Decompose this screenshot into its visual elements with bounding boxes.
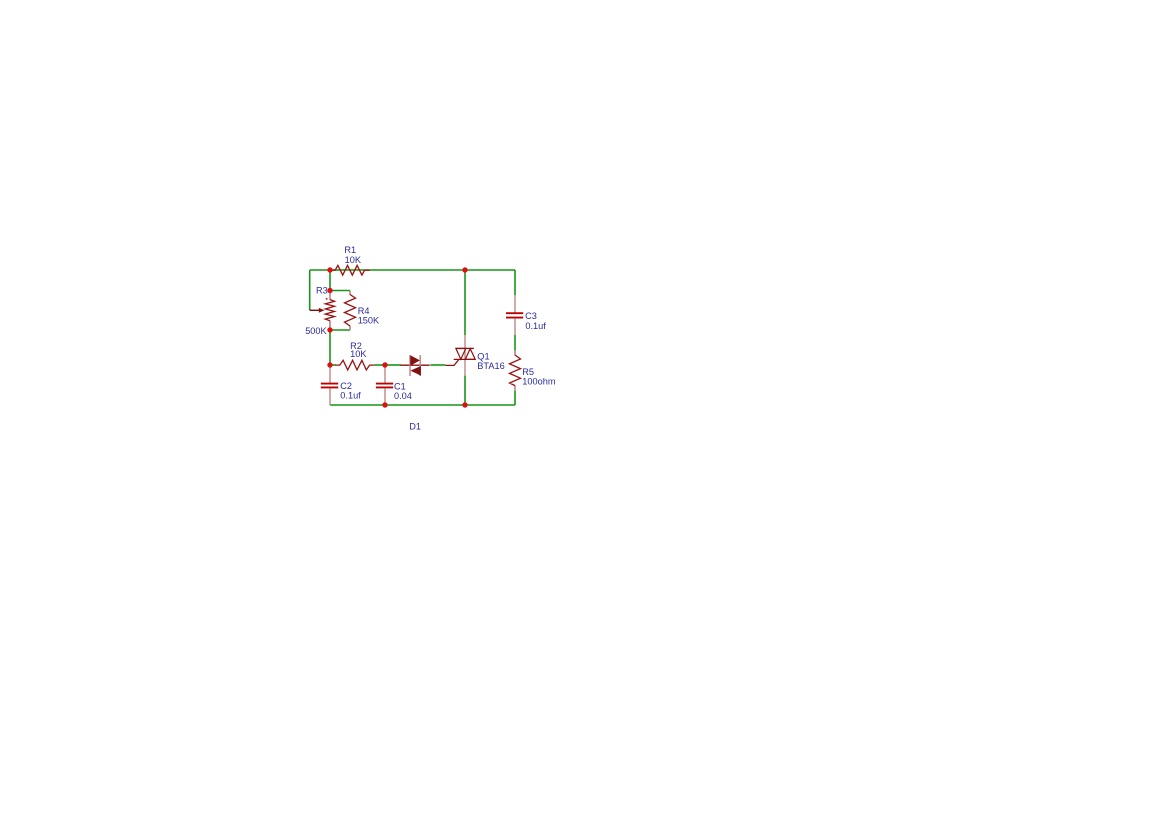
- wire 500K node down to R2 node: [329, 330, 331, 365]
- svg-text:BTA16: BTA16: [477, 361, 504, 371]
- svg-text:Q1: Q1: [477, 352, 489, 362]
- wire C1 node to D1: [385, 364, 401, 366]
- svg-text:500K: 500K: [305, 326, 327, 336]
- node junction top-left: [327, 267, 332, 272]
- wire triac branch bottom: [464, 376, 466, 405]
- node C1 top: [382, 362, 387, 367]
- wire bottom horizontal: [330, 404, 515, 406]
- svg-text:100ohm: 100ohm: [522, 377, 556, 387]
- wire R2 left stub: [330, 364, 336, 366]
- wire R5 bottom to corner: [514, 391, 516, 405]
- svg-text:D1: D1: [409, 422, 421, 432]
- svg-text:10K: 10K: [350, 349, 367, 359]
- wire node1 to R3 top: [329, 270, 331, 291]
- svg-text:R1: R1: [344, 245, 356, 255]
- svg-text:0.1uf: 0.1uf: [525, 321, 546, 331]
- svg-text:R4: R4: [358, 306, 370, 316]
- node C1 bottom: [382, 402, 387, 407]
- triac Q1: [445, 335, 475, 376]
- svg-text:C2: C2: [340, 381, 352, 391]
- wire top horizontal: [310, 269, 515, 271]
- resistor R1: [330, 265, 370, 275]
- wire D1 to triac gate lead: [430, 364, 445, 366]
- svg-text:R3: R3: [316, 286, 328, 296]
- resistor R5: [510, 351, 521, 391]
- wire left outer vertical: [309, 270, 311, 310]
- wire 500K node to R4 bottom: [330, 329, 350, 331]
- svg-text:0.1uf: 0.1uf: [340, 391, 361, 401]
- svg-text:150K: 150K: [358, 316, 380, 326]
- resistor R4: [345, 291, 356, 331]
- wire C3 to R5: [514, 335, 516, 351]
- resistor R2: [335, 360, 374, 370]
- wire triac branch top: [464, 270, 466, 335]
- node triac bottom: [462, 402, 467, 407]
- wire R3 top to R4 top: [330, 290, 350, 292]
- node 500K: [327, 327, 332, 332]
- capacitor C3: [506, 295, 523, 335]
- wire right vertical top to C3: [514, 270, 516, 295]
- svg-text:C3: C3: [525, 311, 537, 321]
- capacitor C2: [321, 367, 338, 405]
- node junction triac top: [462, 267, 467, 272]
- capacitor C1: [376, 367, 393, 405]
- node R3 wiper top: [327, 288, 332, 293]
- svg-text:C1: C1: [394, 381, 406, 391]
- svg-text:10K: 10K: [345, 255, 362, 265]
- svg-text:R5: R5: [522, 367, 534, 377]
- wire R2 right to C1 node: [374, 364, 385, 366]
- diac D1: [400, 355, 429, 376]
- node R2 left: [327, 362, 332, 367]
- svg-text:0.04: 0.04: [394, 391, 412, 401]
- potentiometer R3: [310, 293, 335, 329]
